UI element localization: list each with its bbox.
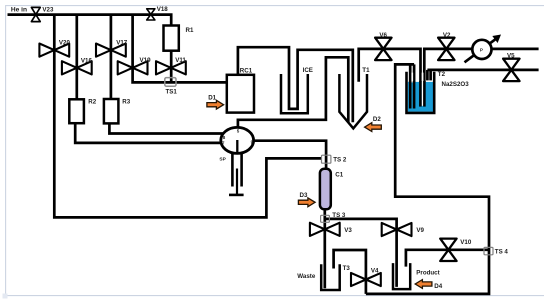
svg-text:V4: V4 — [371, 268, 379, 275]
svg-text:D4: D4 — [434, 283, 442, 290]
product bottle — [393, 263, 410, 289]
wire T1 outlet through V6 line, turning down as T2 dip tube wall — [359, 49, 421, 107]
thermocouple TS3 — [321, 215, 330, 222]
svg-text:V18: V18 — [157, 6, 169, 13]
wire helium main line into R1 — [8, 15, 172, 26]
svg-text:V16: V16 — [81, 57, 93, 64]
valve V4 — [351, 273, 381, 286]
wire C1 down through TS3 and V3 into waste bottle — [323, 209, 326, 288]
svg-text:C1: C1 — [335, 172, 343, 179]
svg-text:TS 4: TS 4 — [495, 249, 509, 256]
detector arrow D3 — [298, 192, 315, 206]
svg-text:RC1: RC1 — [240, 67, 253, 74]
svg-text:Na2S2O3: Na2S2O3 — [442, 81, 470, 88]
wire V16 branch down to R2 — [75, 15, 78, 100]
wire T2 left tube wall a — [409, 64, 412, 108]
svg-text:TS 2: TS 2 — [333, 156, 347, 163]
svg-text:V23: V23 — [42, 6, 54, 13]
svg-text:SP: SP — [219, 157, 226, 163]
valve V5 — [503, 59, 519, 81]
svg-text:V11: V11 — [175, 57, 186, 64]
svg-text:TS 3: TS 3 — [332, 212, 346, 219]
wire T1 deep tube A up across to drop pipe and SP port 5 line — [238, 57, 348, 127]
valve V16 — [62, 61, 92, 74]
wire V19 branch down then right through TS1 to RC1 — [133, 15, 227, 83]
svg-text:TS1: TS1 — [166, 89, 178, 96]
reactor R1 — [164, 26, 179, 51]
wire TS3 junction right and down through V9 into product bottle — [325, 219, 397, 287]
thermocouple TS4 — [484, 247, 493, 254]
svg-text:V5: V5 — [507, 53, 515, 60]
thermocouple TS2 — [322, 155, 331, 163]
svg-text:T1: T1 — [362, 67, 370, 74]
valve V2 — [438, 38, 454, 60]
svg-text:D3: D3 — [300, 192, 308, 199]
svg-text:D1: D1 — [208, 94, 216, 101]
valve V11 — [156, 61, 186, 74]
valve V9 — [382, 223, 412, 236]
valve V17 — [96, 44, 126, 57]
scrubber bottle T2 with Na2S2O3 solution — [407, 72, 435, 113]
svg-text:V20: V20 — [59, 39, 71, 46]
svg-text:T2: T2 — [438, 71, 446, 78]
svg-text:V6: V6 — [379, 32, 387, 39]
thermocouple TS1 — [165, 78, 176, 87]
wire V5 line from T2 right tube — [427, 69, 538, 72]
wire R1 outlet through V11 to TS1 line — [170, 51, 173, 83]
valve V20 — [39, 44, 69, 57]
svg-text:He in: He in — [11, 7, 27, 14]
wire T2 left tube wall b — [413, 64, 416, 108]
svg-text:T3: T3 — [343, 265, 351, 272]
svg-text:D2: D2 — [373, 116, 381, 123]
svg-text:V17: V17 — [116, 39, 128, 46]
wire T2 right tube wall b — [429, 70, 432, 81]
canvas corner handle — [3, 294, 8, 299]
wire V20 branch down, across bottom, up to TS2 junction — [54, 15, 321, 218]
svg-text:R2: R2 — [88, 98, 96, 105]
wire waste bottle bridge over V4 to bottom line — [334, 250, 366, 294]
svg-text:V19: V19 — [140, 57, 152, 64]
svg-text:V9: V9 — [416, 227, 424, 234]
wire R2 outlet to SP port 7 — [75, 123, 221, 143]
wire product tube through V10 to TS4 — [406, 250, 489, 267]
svg-text:ICE: ICE — [303, 67, 313, 74]
detector arrow D4 — [415, 280, 443, 290]
wire V17 branch down to R3 — [110, 15, 113, 100]
svg-text:V3: V3 — [344, 227, 352, 234]
valve V23 — [31, 7, 40, 21]
valve V18 — [147, 9, 155, 20]
valve V6 — [375, 38, 391, 60]
valve V10 — [440, 239, 456, 261]
ice bath beaker ICE — [281, 74, 308, 113]
wire R3 outlet to SP port 8 — [109, 123, 222, 134]
waste bottle T3 — [321, 264, 340, 290]
svg-text:R1: R1 — [186, 27, 194, 34]
sample port rotary valve SP — [221, 127, 254, 153]
wire SP port 9 line to TS2 and C1 — [253, 141, 326, 169]
reactor RC1 — [227, 75, 254, 113]
reactor R2 — [69, 99, 84, 123]
wire RC1 top riser to ICE U-tube and on into T1 deep tube B — [238, 47, 353, 122]
column C1 — [320, 169, 331, 210]
svg-text:Waste: Waste — [297, 273, 316, 280]
cold trap T1 — [339, 74, 367, 128]
reactor R3 — [104, 99, 119, 123]
valve V3 — [310, 223, 340, 236]
wire T2 bridge down right side to bottom line and V4 — [366, 64, 489, 294]
syringe below SP — [229, 153, 244, 195]
valve V19 — [118, 61, 148, 74]
svg-text:Product: Product — [416, 270, 439, 277]
detector arrow D2 — [365, 116, 382, 132]
svg-text:R3: R3 — [122, 98, 130, 105]
wire T2 dip tube wall up to V2 pump line — [424, 49, 538, 107]
svg-text:P: P — [480, 47, 483, 52]
svg-text:V2: V2 — [443, 32, 451, 39]
svg-text:V10: V10 — [460, 239, 472, 246]
wire T2 right tube wall a — [426, 70, 429, 81]
detector arrow D1 — [207, 94, 224, 109]
pump P — [465, 35, 502, 63]
